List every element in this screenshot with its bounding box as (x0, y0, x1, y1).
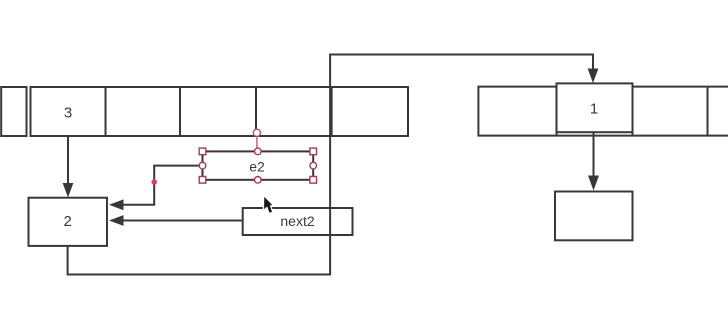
svg-text:3: 3 (64, 104, 72, 121)
svg-text:next2: next2 (280, 213, 314, 229)
connector: 2 bottom -> 1 top (long loop) (68, 55, 593, 275)
arrowhead into node 1 (588, 69, 599, 84)
left array divider x=256 (255, 87, 257, 136)
svg-text:e2: e2 (249, 158, 265, 174)
connector: cell 3 -> node 2 (67, 136, 69, 184)
mouse cursor (264, 197, 272, 213)
node box 1 (overlaps right array) (557, 83, 633, 132)
arrowhead into node 2 right (from next2) (109, 215, 124, 226)
svg-text:2: 2 (64, 213, 72, 230)
connector: next2 -> node 2 (123, 220, 243, 222)
box next2 (243, 208, 353, 235)
connector: e2 -> node 2 (with waypoint) (123, 166, 203, 205)
left array divider x=331 (331, 87, 333, 136)
handle bottom-center circle (254, 177, 261, 184)
left array divider x=180 (179, 87, 181, 136)
selection handles of e2: corner squares (199, 148, 316, 183)
right array divider x=632.5 (632, 87, 634, 136)
svg-text:1: 1 (590, 100, 598, 117)
arrowhead into bottom-right box (588, 176, 599, 191)
handle top-right (310, 148, 317, 155)
arrowhead into node 2 top (63, 183, 74, 198)
handle bottom-left (199, 177, 206, 184)
node box 2 (29, 198, 108, 246)
right array divider x=556.5 (556, 87, 558, 136)
handle top-left (199, 148, 206, 155)
handle left-center circle (199, 162, 206, 169)
handle bottom-right (310, 177, 317, 184)
left array main row (31, 87, 409, 136)
left array partial first cell (1, 87, 26, 136)
handle right-center circle (310, 162, 317, 169)
entry box e2 (selected) (203, 151, 314, 179)
bottom-right empty box (555, 192, 633, 241)
left array divider x=105.5 (105, 87, 107, 136)
arrowhead into node 2 right (from e2) (109, 199, 124, 210)
right array row (478, 87, 728, 136)
handle top-center circle (254, 148, 261, 155)
selected edge source endpoint circle (253, 129, 260, 136)
connector: node 1 -> bottom-right box (593, 132, 595, 177)
red waypoint dot (151, 179, 157, 185)
selected edge: array cell -> e2 (pink) (256, 133, 258, 152)
right array divider x=707.5 (707, 87, 709, 136)
